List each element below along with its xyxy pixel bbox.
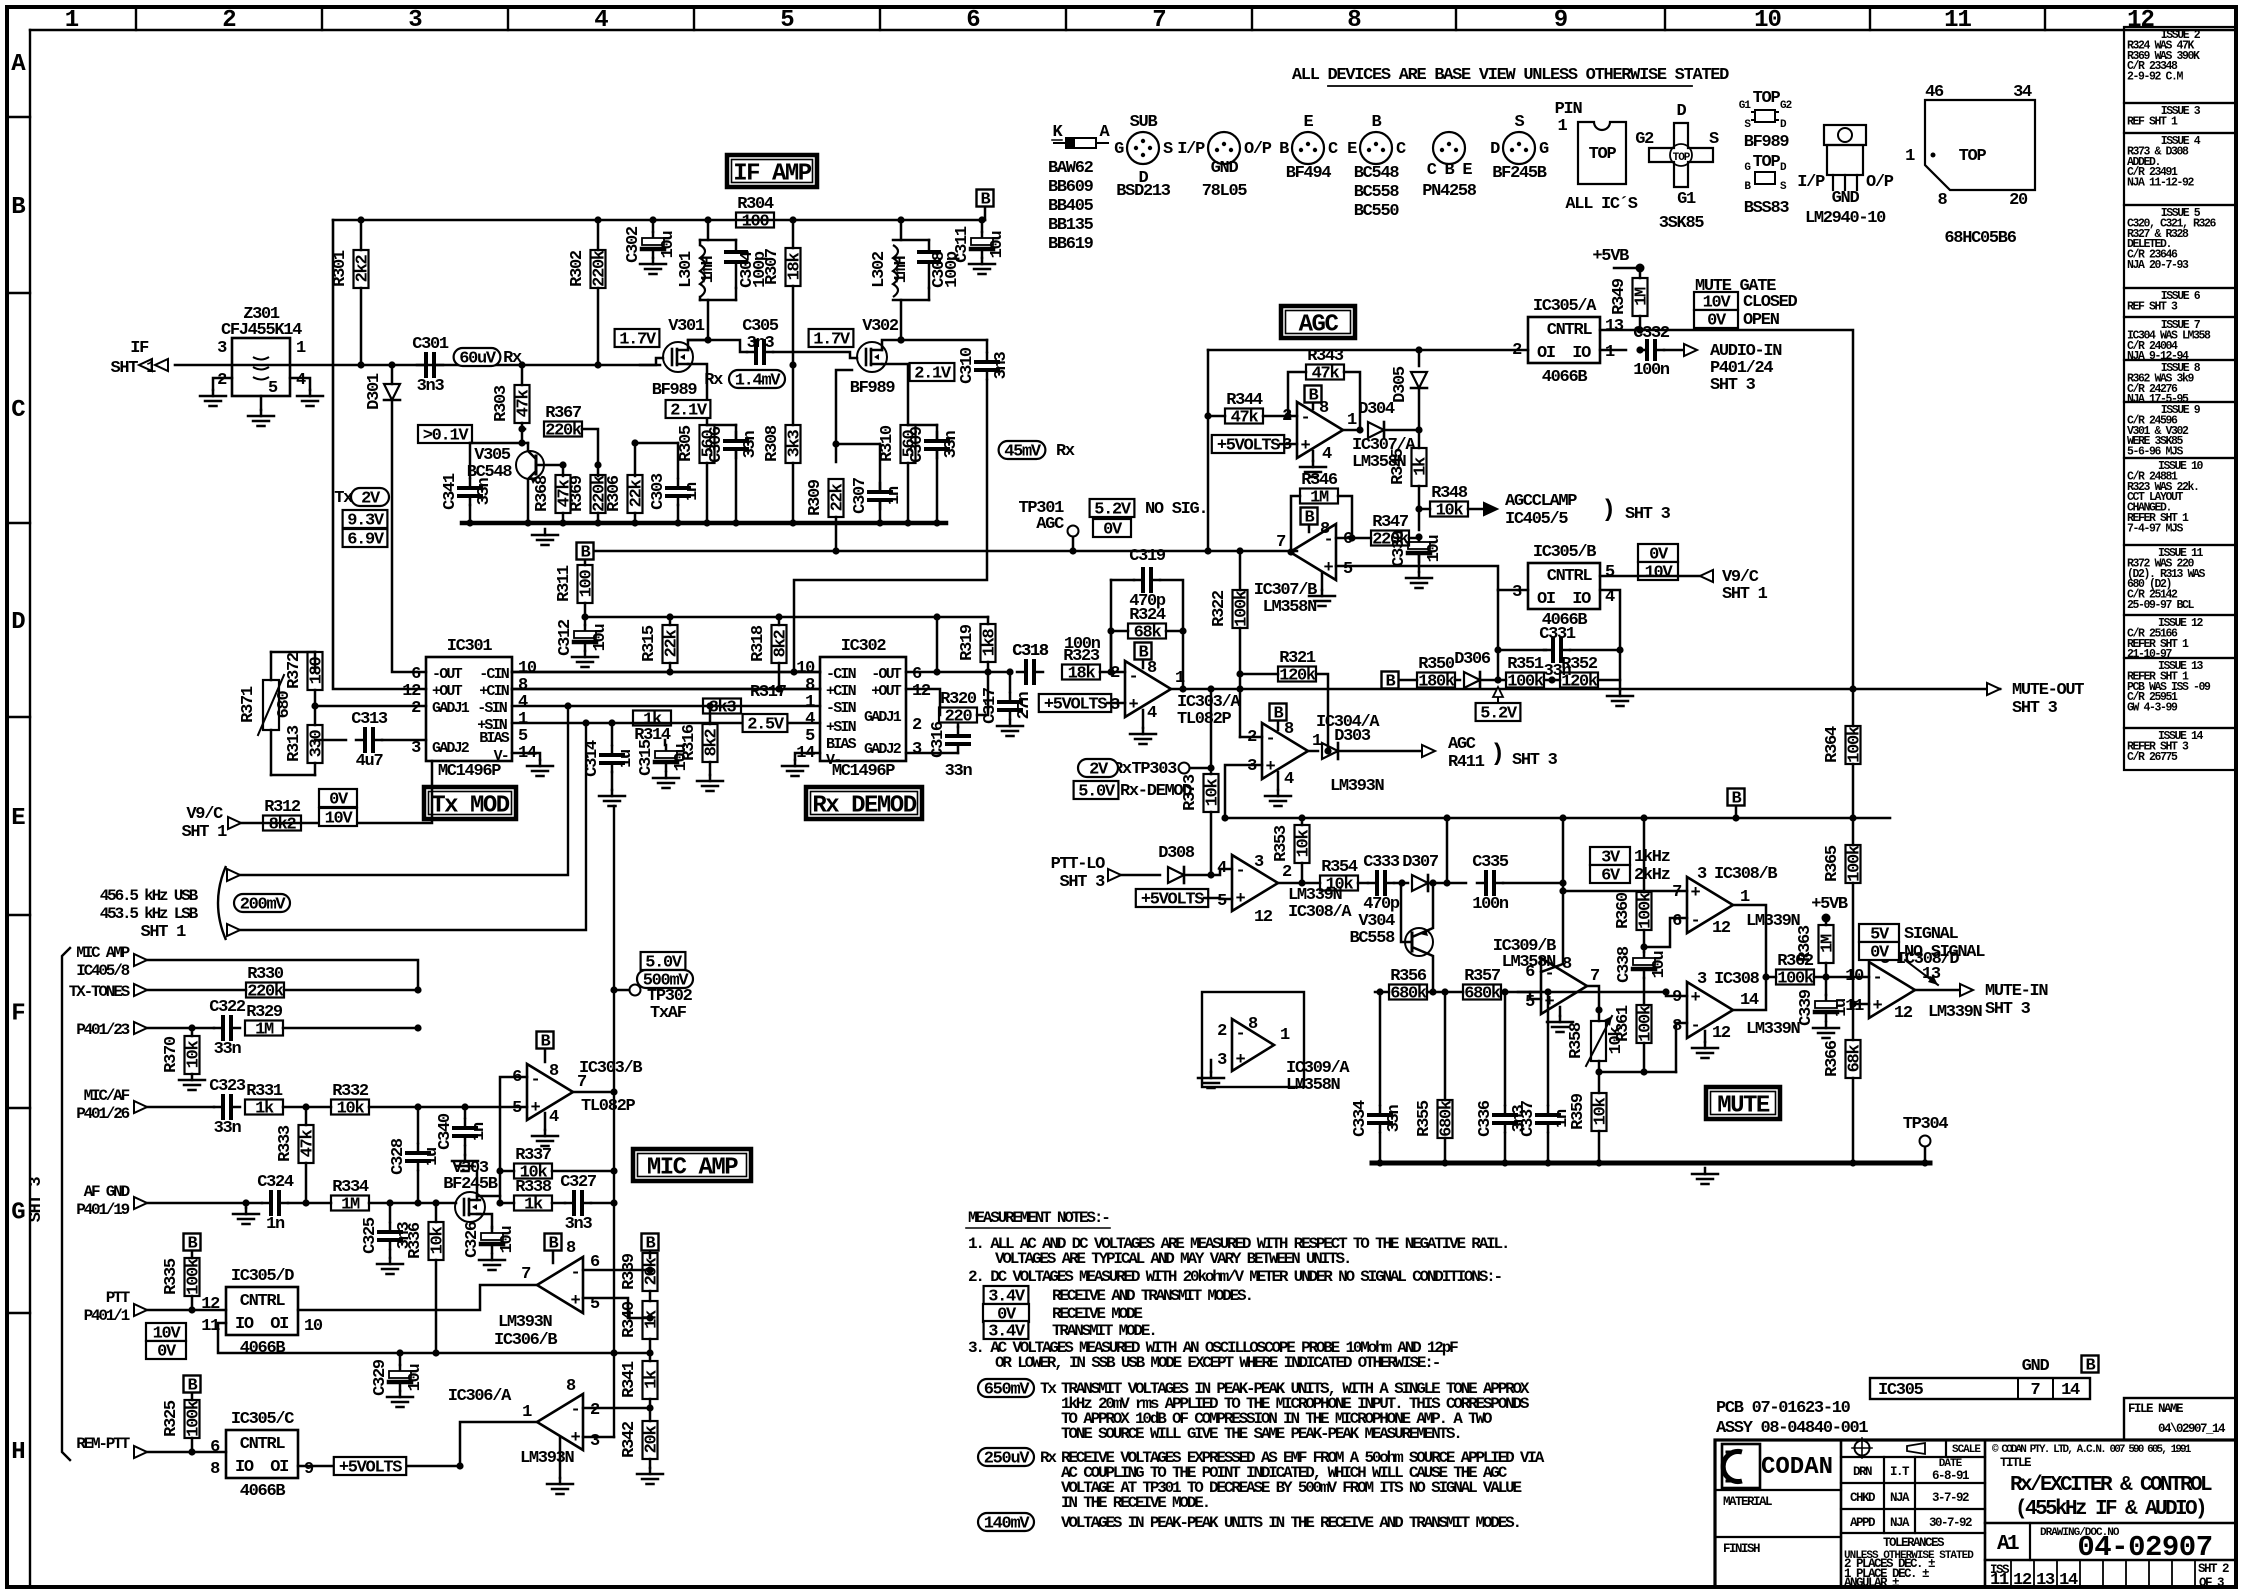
package BSD213 [1127, 132, 1159, 164]
op-amp IC308/A [1232, 855, 1278, 911]
wire C338 to IC308B [1644, 918, 1687, 947]
svg-text:GADJ1: GADJ1 [864, 709, 902, 726]
svg-text:120k: 120k [1561, 673, 1598, 692]
svg-text:+: + [1129, 696, 1139, 715]
svg-text:D305: D305 [1391, 366, 1410, 403]
svg-text:TOP: TOP [1589, 145, 1617, 164]
svg-text:R355: R355 [1415, 1100, 1434, 1137]
svg-text:NJA: NJA [1890, 1491, 1910, 1505]
svg-text:C: C [11, 397, 25, 424]
resistor R334 [288, 1202, 331, 1205]
CODAN logo [1722, 1444, 1760, 1488]
svg-text:V301: V301 [668, 317, 705, 336]
svg-text:3: 3 [590, 1432, 600, 1451]
svg-text:R348: R348 [1431, 484, 1468, 503]
IC IC305/A [1528, 317, 1600, 363]
resistor R343 [1306, 365, 1344, 380]
flag B R350 [1382, 672, 1399, 689]
svg-text:+5VOLTS: +5VOLTS [339, 1459, 402, 1478]
boxes 10V 0V PTT [146, 1323, 186, 1341]
svg-text:2V: 2V [361, 490, 381, 509]
svg-text:MUTE: MUTE [1717, 1093, 1770, 1120]
svg-text:R343: R343 [1307, 347, 1344, 366]
svg-text:BIAS: BIAS [826, 736, 857, 753]
IC IC302 [820, 657, 906, 761]
svg-text:NJA: NJA [1890, 1516, 1910, 1530]
svg-text:LM339N: LM339N [1928, 1003, 1983, 1022]
svg-text:10k: 10k [1326, 876, 1354, 895]
svg-text:+5VOLTS: +5VOLTS [1044, 696, 1107, 715]
svg-text:60uV: 60uV [459, 350, 497, 369]
boxes 5V 0V signal [1859, 924, 1899, 942]
svg-text:1M: 1M [1310, 489, 1329, 508]
svg-text:BB609: BB609 [1048, 178, 1094, 197]
capacitor C335 [1447, 882, 1466, 885]
svg-text:R315: R315 [640, 625, 659, 662]
resistor R370 [191, 1028, 194, 1036]
svg-text:1n: 1n [683, 482, 702, 501]
svg-text:7-4-97 MJS: 7-4-97 MJS [2127, 522, 2184, 535]
svg-text:100k: 100k [1846, 845, 1865, 882]
inductor L302 / capacitor C308 tank [900, 220, 903, 240]
svg-text:RECEIVE AND TRANSMIT MODES.: RECEIVE AND TRANSMIT MODES. [1052, 1287, 1252, 1305]
svg-text:180: 180 [308, 657, 327, 685]
op-amp IC303/B [527, 1064, 573, 1120]
svg-text:R330: R330 [247, 965, 284, 984]
capacitor C312 [584, 617, 587, 625]
svg-text:R368: R368 [533, 475, 552, 512]
svg-text:6-8-91: 6-8-91 [1932, 1469, 1969, 1483]
svg-text:C318: C318 [1012, 642, 1049, 661]
svg-text:D: D [1677, 102, 1687, 121]
flag B R325 [184, 1376, 201, 1393]
wire IC307B out [1236, 547, 1243, 554]
svg-text:-: - [1691, 1017, 1700, 1036]
resistor R309 [836, 370, 852, 444]
resistor R332 [331, 1100, 369, 1115]
svg-text:PTT-LO: PTT-LO [1051, 855, 1106, 874]
svg-text:BIAS: BIAS [479, 730, 510, 747]
svg-text:10u: 10u [591, 625, 610, 652]
svg-text:2: 2 [1217, 1022, 1227, 1041]
svg-text:D: D [1490, 140, 1500, 159]
svg-text:GADJ2: GADJ2 [864, 741, 902, 758]
svg-text:3: 3 [912, 740, 922, 759]
svg-text:IO: IO [1572, 590, 1591, 609]
flag B R311 [577, 543, 594, 560]
svg-text:SHT 1: SHT 1 [1722, 585, 1768, 604]
svg-text:1k8: 1k8 [981, 629, 1000, 657]
svg-text:R366: R366 [1823, 1040, 1842, 1077]
svg-text:6: 6 [210, 1438, 220, 1457]
op-amp IC308 lower [1687, 982, 1733, 1038]
svg-text:GND: GND [1211, 159, 1239, 178]
svg-text:S: S [1709, 130, 1719, 149]
svg-text:1M: 1M [255, 1021, 274, 1040]
svg-text:C323: C323 [209, 1077, 246, 1096]
resistor R330 [246, 983, 284, 998]
arrow LSB line [227, 924, 240, 936]
svg-text:D307: D307 [1402, 853, 1439, 872]
svg-text:D301: D301 [365, 373, 384, 410]
svg-text:MIC AMP: MIC AMP [647, 1155, 738, 1182]
resistor R373 [1210, 768, 1213, 774]
svg-text:R306: R306 [605, 475, 624, 512]
filter Z301 [232, 338, 290, 396]
wire top rail [333, 219, 985, 222]
svg-text:BF494: BF494 [1286, 164, 1332, 183]
svg-text:8: 8 [1284, 720, 1294, 739]
svg-text:-CIN: -CIN [826, 666, 857, 683]
svg-text:+: + [1236, 890, 1246, 909]
svg-text:R301: R301 [331, 250, 350, 287]
capacitor C307 [836, 443, 880, 446]
svg-text:3: 3 [1697, 865, 1707, 884]
diode D306 [1455, 679, 1460, 682]
svg-text:I/P: I/P [1797, 173, 1825, 192]
capacitor C339 [1825, 977, 1828, 995]
scale/date cells [1841, 1456, 1985, 1458]
svg-text:R303: R303 [492, 385, 511, 422]
capacitor C303 [677, 443, 680, 478]
svg-text:680: 680 [275, 691, 294, 719]
oval 200mV [234, 894, 290, 912]
capacitor C311 [981, 220, 984, 232]
svg-text:14: 14 [2061, 1381, 2080, 1400]
svg-text:5: 5 [1217, 892, 1227, 911]
svg-text:SHT 1: SHT 1 [140, 923, 186, 942]
svg-text:SUB: SUB [1130, 113, 1158, 132]
svg-text:R329: R329 [246, 1003, 283, 1022]
svg-text:C341: C341 [441, 473, 460, 510]
svg-text:-: - [571, 1401, 580, 1420]
svg-text:-: - [571, 1264, 580, 1283]
svg-text:+CIN: +CIN [479, 683, 510, 700]
svg-text:12: 12 [1894, 1004, 1913, 1023]
capacitor C340 [464, 1107, 467, 1118]
svg-text:AGC: AGC [1448, 735, 1476, 754]
svg-text:D303: D303 [1334, 727, 1371, 746]
svg-text:5.0V: 5.0V [1078, 783, 1116, 802]
arrow MUTE-OUT [1987, 683, 2000, 695]
svg-text:5: 5 [1343, 560, 1353, 579]
svg-text:+: + [1545, 993, 1555, 1012]
capacitor C338 [1643, 947, 1646, 952]
svg-text:SHT 3: SHT 3 [1625, 505, 1671, 524]
svg-text:1k: 1k [1412, 457, 1431, 476]
package BF245B [1503, 132, 1535, 164]
svg-text:4: 4 [1217, 859, 1227, 878]
svg-text:LM358N: LM358N [1263, 598, 1318, 617]
svg-text:6: 6 [966, 7, 980, 34]
svg-text:7: 7 [521, 1265, 531, 1284]
flag B IC306B [545, 1234, 562, 1251]
wire pin5 IC307B [1336, 566, 1498, 590]
wire IF input line [175, 364, 660, 367]
svg-text:2: 2 [1512, 341, 1522, 360]
svg-text:FILE NAME: FILE NAME [2128, 1402, 2183, 1416]
svg-text:33n: 33n [945, 762, 973, 781]
svg-text:20k: 20k [643, 1426, 662, 1454]
svg-text:BF989: BF989 [1744, 133, 1790, 152]
svg-text:33n: 33n [475, 478, 494, 506]
svg-text:680k: 680k [1464, 985, 1501, 1004]
svg-text:2k2: 2k2 [354, 255, 373, 283]
svg-text:SHT 3: SHT 3 [1512, 751, 1558, 770]
svg-text:R333: R333 [276, 1125, 295, 1162]
svg-text:NJA 11-12-92: NJA 11-12-92 [2127, 177, 2195, 190]
svg-text:REF SHT 3: REF SHT 3 [2127, 300, 2178, 313]
box 2.5V [743, 714, 788, 732]
resistor R344 [1225, 409, 1263, 424]
resistor R340 [649, 1291, 652, 1301]
svg-text:220k: 220k [247, 983, 284, 1002]
op-amp IC306/A [537, 1394, 583, 1450]
wire +SIN [512, 722, 820, 725]
resistor R325 [185, 1400, 200, 1438]
svg-text:GND: GND [2022, 1357, 2050, 1376]
svg-text:V9/C: V9/C [186, 805, 223, 824]
resistor R348 [1430, 502, 1468, 517]
op-amp IC307/B [1290, 524, 1336, 580]
svg-text:D: D [11, 609, 25, 636]
svg-text:AGC: AGC [1299, 312, 1339, 339]
svg-text:BC558: BC558 [1354, 183, 1400, 202]
svg-text:5: 5 [268, 379, 278, 398]
svg-text:BF245B: BF245B [443, 1175, 498, 1194]
svg-text:SHT 2: SHT 2 [2198, 1562, 2229, 1576]
package 78L05 [1208, 132, 1240, 164]
svg-text:VOLTAGES ARE TYPICAL AND MAY V: VOLTAGES ARE TYPICAL AND MAY VARY BETWEE… [995, 1250, 1350, 1268]
ground IC302 V- [795, 753, 820, 760]
svg-text:BF245B: BF245B [1492, 164, 1547, 183]
svg-text:PN4258: PN4258 [1422, 182, 1477, 201]
resistor R303 [518, 361, 525, 368]
inductor L301 / capacitor C304 tank [707, 220, 710, 240]
svg-text:R307: R307 [763, 248, 782, 285]
resistor R307 [792, 220, 795, 248]
oval 60uV Rx [454, 348, 501, 366]
svg-text:AGC: AGC [1036, 515, 1064, 534]
svg-text:0V: 0V [1103, 521, 1123, 540]
svg-text:47k: 47k [1231, 409, 1259, 428]
svg-text:IC308/A: IC308/A [1288, 903, 1352, 922]
svg-text:4066B: 4066B [240, 1482, 286, 1501]
svg-text:CFJ455K14: CFJ455K14 [221, 321, 302, 340]
svg-text:10: 10 [304, 1317, 323, 1336]
svg-text:BC548: BC548 [1354, 164, 1400, 183]
wire +CIN bus [512, 688, 820, 691]
svg-text:1n: 1n [266, 1215, 285, 1234]
svg-text:Rx: Rx [1056, 442, 1075, 461]
svg-text:SHT 3: SHT 3 [2012, 699, 2058, 718]
svg-text:0V: 0V [329, 791, 349, 810]
svg-text:-OUT: -OUT [871, 666, 902, 683]
IC IC305/D [226, 1287, 298, 1335]
capacitor C327 [552, 1202, 565, 1205]
capacitor C333 [1368, 882, 1377, 885]
resistor R339 [643, 1253, 658, 1291]
svg-text:MIC AMP: MIC AMP [76, 944, 129, 962]
svg-text:27n: 27n [1015, 692, 1034, 720]
svg-text:20: 20 [2009, 191, 2028, 210]
svg-text:LM2940-10: LM2940-10 [1805, 209, 1886, 228]
svg-text:SHT 1: SHT 1 [181, 823, 227, 842]
resistor R345 [1418, 430, 1421, 448]
resistor R368 [562, 465, 565, 476]
wire R311 line [585, 616, 988, 619]
svg-text:4u7: 4u7 [356, 752, 384, 771]
resistor R324 feedback [1110, 631, 1113, 672]
svg-text:-SIN: -SIN [826, 700, 857, 717]
svg-text:S: S [1515, 113, 1525, 132]
arrow MUTE-IN [1960, 984, 1973, 996]
arrow diagonal [1905, 960, 1938, 985]
svg-text:FINISH: FINISH [1723, 1542, 1760, 1556]
svg-text:ALL DEVICES ARE BASE VIEW UNLE: ALL DEVICES ARE BASE VIEW UNLESS OTHERWI… [1292, 66, 1729, 85]
svg-text:SHT 1: SHT 1 [110, 359, 156, 378]
svg-text:1: 1 [1312, 732, 1322, 751]
box 2.1V under V301 [666, 400, 711, 418]
svg-text:12: 12 [1712, 919, 1731, 938]
svg-text:Rx/EXCITER & CONTROL: Rx/EXCITER & CONTROL [2010, 1474, 2212, 1497]
svg-text:8: 8 [1347, 7, 1361, 34]
svg-text:20k: 20k [643, 1258, 662, 1286]
flag B R339 [642, 1234, 659, 1251]
svg-text:+: + [1691, 989, 1701, 1008]
svg-text:22k: 22k [663, 630, 682, 658]
svg-text:V-: V- [494, 748, 508, 765]
wire IC305D pin11 [218, 1323, 436, 1353]
capacitor C301 [417, 364, 426, 367]
svg-text:P401/26: P401/26 [76, 1105, 129, 1123]
package LM2940-10 [1824, 125, 1866, 145]
svg-text:04\02907_14: 04\02907_14 [2158, 1422, 2226, 1436]
resistor R333 [305, 1107, 308, 1125]
box 2.1V V302 [910, 363, 955, 381]
flag B IC304A [1270, 704, 1287, 721]
svg-text:100n: 100n [1472, 895, 1509, 914]
test point TP303 [1210, 689, 1213, 768]
flag B IC303B [537, 1032, 554, 1049]
test point TP301 [1069, 547, 1076, 554]
svg-text:680k: 680k [1390, 985, 1427, 1004]
svg-text:R371: R371 [239, 686, 258, 723]
svg-text:1M: 1M [1633, 287, 1652, 306]
svg-text:-: - [1266, 730, 1275, 749]
svg-text:Tx MOD: Tx MOD [431, 793, 510, 820]
svg-text:+: + [1266, 758, 1276, 777]
svg-text:C310: C310 [958, 347, 977, 384]
svg-text:OI: OI [1537, 344, 1555, 363]
svg-text:680k: 680k [1438, 1100, 1457, 1137]
svg-text:MEASUREMENT NOTES:-: MEASUREMENT NOTES:- [968, 1209, 1109, 1227]
svg-text:3n3: 3n3 [417, 377, 445, 396]
svg-text:CNTRL: CNTRL [240, 1292, 286, 1311]
svg-text:+: + [1873, 997, 1883, 1016]
capacitor C341 [469, 443, 472, 478]
svg-text:R309: R309 [806, 479, 825, 516]
capacitor C324 [245, 1203, 248, 1208]
svg-text:CHKD: CHKD [1850, 1491, 1876, 1505]
capacitor C319 feedback [1110, 580, 1113, 672]
svg-text:OF 3: OF 3 [2199, 1576, 2224, 1590]
svg-text:R372: R372 [285, 652, 304, 689]
svg-text:220k: 220k [591, 250, 610, 287]
wire IC308A out [1278, 882, 1302, 885]
package 3SK85 [1649, 123, 1713, 187]
capacitor C328 [417, 1107, 420, 1143]
svg-text:10V: 10V [325, 810, 354, 829]
svg-text:PTT: PTT [106, 1289, 131, 1307]
svg-text:REF SHT 1: REF SHT 1 [2127, 115, 2178, 128]
svg-text:OPEN: OPEN [1743, 311, 1780, 330]
op-amp IC309/B [1541, 958, 1587, 1014]
svg-text:R331: R331 [246, 1082, 283, 1101]
capacitor C309 [908, 424, 937, 427]
svg-text:C337: C337 [1519, 1100, 1538, 1137]
svg-text:33n: 33n [214, 1119, 242, 1138]
svg-text:12: 12 [912, 682, 931, 701]
svg-text:IC308/B: IC308/B [1714, 865, 1777, 884]
wire IC304A pin2 [1240, 736, 1262, 739]
svg-text:R341: R341 [620, 1361, 639, 1398]
svg-text:R369: R369 [568, 475, 587, 512]
svg-text:-: - [1129, 668, 1138, 687]
svg-text:10u: 10u [406, 1365, 425, 1392]
wire IC309B out [1587, 986, 1599, 1010]
issue notes column [2124, 27, 2236, 103]
svg-text:-CIN: -CIN [479, 666, 510, 683]
svg-text:C302: C302 [624, 226, 643, 263]
svg-text:GND: GND [1832, 189, 1860, 208]
svg-text:B: B [11, 194, 25, 221]
svg-text:OI: OI [1537, 590, 1555, 609]
svg-text:10u: 10u [498, 1227, 517, 1254]
resistor R314 [633, 711, 671, 726]
svg-text:LM393N: LM393N [498, 1313, 553, 1332]
svg-text:-: - [1236, 1025, 1245, 1044]
svg-text:2: 2 [411, 699, 421, 718]
svg-text:R353: R353 [1272, 825, 1291, 862]
svg-text:0V: 0V [1870, 944, 1890, 963]
box +5VOLTS IC307A [1212, 435, 1284, 453]
resistor R359 [1592, 1093, 1607, 1131]
svg-text:C331: C331 [1539, 625, 1576, 644]
svg-text:+5VB: +5VB [1811, 895, 1848, 914]
svg-text:100k: 100k [1637, 892, 1656, 929]
svg-text:10k: 10k [1592, 1098, 1611, 1126]
svg-text:NO SIG.: NO SIG. [1145, 500, 1207, 519]
box 5.2V arrow [1497, 688, 1499, 702]
package PN4258 [1433, 132, 1465, 164]
svg-text:MUTE-OUT: MUTE-OUT [2012, 681, 2084, 700]
svg-text:R324: R324 [1129, 606, 1166, 625]
capacitor C305 [747, 351, 756, 354]
trunk TxAF [613, 806, 615, 1437]
svg-text:3: 3 [217, 339, 227, 358]
svg-text:REM-PTT: REM-PTT [76, 1435, 130, 1453]
svg-text:R346: R346 [1301, 471, 1338, 490]
svg-text:11: 11 [1990, 1571, 2009, 1590]
svg-text:+: + [571, 1429, 581, 1448]
capacitor C315 [664, 740, 667, 745]
arrow USB line [227, 869, 240, 881]
svg-text:100k: 100k [1507, 673, 1544, 692]
svg-text:© CODAN PTY. LTD, A.C.N. 007: © CODAN PTY. LTD, A.C.N. 007 590 605, 19… [1992, 1444, 2192, 1456]
svg-text:TX-TONES: TX-TONES [69, 983, 131, 1001]
svg-text:650mV: 650mV [984, 1381, 1031, 1400]
